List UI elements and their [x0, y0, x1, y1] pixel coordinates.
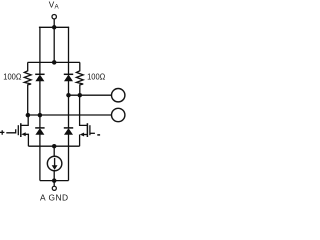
wire output line 1: [69, 94, 112, 96]
wire rail2 (resistor rail): [28, 61, 80, 63]
transistor Q1 source arrow: [21, 132, 25, 136]
node dot tail rail: [52, 144, 57, 149]
node dot ground rail: [52, 178, 57, 183]
resistor R2 100ohm right: [76, 62, 83, 95]
label minus input: [97, 134, 100, 136]
wire left diode column lower: [39, 115, 41, 128]
current source I1 circle: [47, 156, 62, 171]
wire output line 2: [28, 114, 112, 116]
transistor Q2 source arrow: [80, 133, 84, 137]
wire right diode column lower: [68, 95, 70, 128]
transistor Q2 gate lead: [90, 132, 95, 134]
node dot rail1/VA: [52, 25, 57, 30]
wire tail to current source: [53, 146, 55, 156]
transistor Q1 channel bar: [20, 123, 22, 137]
wire rail1 (top rail): [39, 26, 69, 28]
node dot resistor R2 / line1: [78, 93, 83, 98]
diode D1 anode triangle: [35, 75, 44, 82]
wire ground rail to A GND terminal: [53, 181, 55, 187]
wire ground rail: [40, 180, 69, 182]
diode D4 anode triangle: [64, 128, 73, 135]
diode D3 anode triangle: [35, 128, 44, 135]
terminal VA (open circle): [52, 15, 56, 19]
node dot diode D1 / line2: [38, 113, 43, 118]
transistor Q2 channel bar: [86, 123, 88, 137]
node dot rail2 center: [52, 60, 57, 65]
svg-text:100Ω: 100Ω: [87, 71, 106, 81]
wire center column VA: [53, 27, 55, 62]
transistor Q2 drain lead: [80, 95, 87, 125]
terminal output 2 (open circle): [112, 108, 125, 121]
resistor R1 100ohm left: [24, 62, 31, 115]
terminal A GND (open circle): [52, 186, 56, 190]
wire D3 anode to ground rail: [39, 134, 41, 180]
node dot diode D2 / line1: [66, 93, 71, 98]
wire D4 anode to ground rail: [68, 134, 70, 180]
transistor Q1 gate lead: [6, 129, 15, 133]
diode D4 cathode bar: [64, 127, 73, 129]
current source I1 arrow head: [52, 165, 58, 170]
terminal output 1 (open circle): [112, 89, 125, 102]
label plus input: [0, 130, 4, 135]
svg-text:100Ω: 100Ω: [3, 71, 22, 81]
node dot resistor R1 / line2: [26, 113, 31, 118]
transistor Q2 source down lead: [79, 135, 81, 147]
diode D2 anode triangle: [64, 75, 73, 82]
transistor Q1 gate bar: [17, 125, 19, 135]
diode D2 cathode bar: [64, 73, 73, 75]
wire D1 anode to node: [39, 81, 41, 115]
transistor Q2 gate bar: [89, 125, 91, 135]
transistor Q1 source lead: [25, 134, 28, 146]
diode D3 cathode bar: [35, 127, 44, 129]
wire current source to ground rail: [53, 171, 55, 181]
wire tail rail (sources): [28, 145, 79, 147]
wire D2 anode to node: [68, 81, 70, 95]
wire left diode column upper: [39, 27, 41, 74]
current source I1 arrow shaft: [54, 158, 56, 166]
diode D1 cathode bar: [35, 73, 44, 75]
wire right diode column upper: [68, 27, 70, 74]
transistor Q2 source lead: [84, 134, 87, 136]
wire VA terminal to rail1: [53, 19, 55, 27]
svg-text:A GND: A GND: [40, 192, 69, 202]
transistor Q1 drain lead: [21, 115, 28, 125]
